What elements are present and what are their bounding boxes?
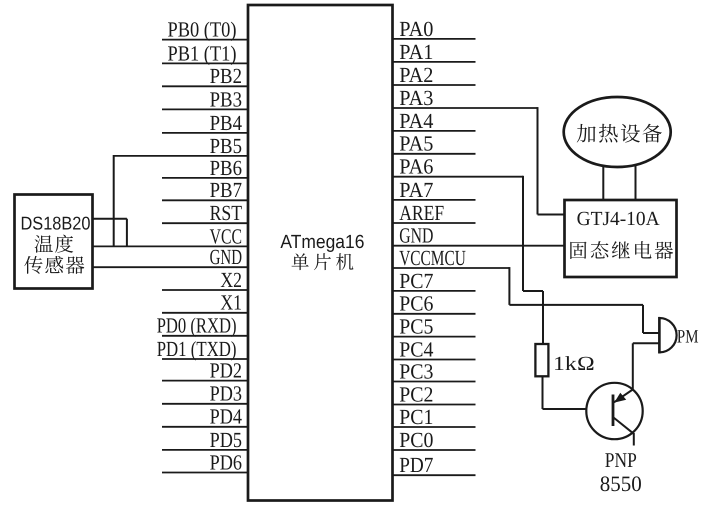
wire: right pin line PA2 (393, 84, 476, 86)
wire: buzzer top pin (643, 332, 660, 334)
transistor Q1 emitter arrow into base (PNP) (614, 393, 626, 403)
heater label 加热设备 (heating equipment) (577, 124, 662, 143)
svg-text:PA3: PA3 (399, 86, 433, 110)
wire: left pin line RST (162, 222, 248, 224)
wire: right pin line PA1 (393, 61, 476, 63)
wire: right pin line PC6 (393, 313, 476, 315)
wire: left pin line PB4 (162, 132, 248, 134)
wire: VCCMCU vertical (508, 267, 510, 305)
sensor label 传感器 (sensor) (24, 256, 84, 274)
wire: right pin line PA6 (393, 176, 523, 178)
svg-text:PB7: PB7 (210, 178, 243, 202)
svg-text:PB2: PB2 (210, 64, 242, 88)
svg-text:8550: 8550 (600, 471, 642, 496)
wire: DS18B20 data horizontal (93, 218, 127, 220)
wire: PB5 pull-up vertical to VCC line (113, 155, 115, 246)
transistor Q1 emitter diagonal (614, 389, 634, 402)
buzzer flat edge (658, 317, 661, 353)
wire: right pin line GND (393, 245, 565, 247)
svg-text:DS18B20: DS18B20 (21, 212, 91, 233)
wire: right pin line AREF (393, 222, 476, 224)
wire: collector lead down (633, 433, 635, 446)
svg-text:PB0 (T0): PB0 (T0) (168, 18, 237, 42)
svg-text:PA1: PA1 (399, 40, 433, 64)
svg-text:PC4: PC4 (399, 337, 433, 361)
sensor label 温度 (temperature) (35, 235, 74, 253)
wire: left pin line PB7 (162, 199, 248, 201)
svg-text:PD1 (TXD): PD1 (TXD) (157, 337, 237, 361)
wire: right pin line PC4 (393, 359, 476, 361)
svg-text:PD6: PD6 (210, 450, 243, 474)
svg-text:PB5: PB5 (210, 134, 242, 158)
svg-text:X1: X1 (220, 291, 242, 315)
wire: vertical down to buzzer top pin (642, 305, 644, 333)
wire: right pin line PC7 (393, 290, 476, 292)
svg-text:PA0: PA0 (399, 17, 433, 41)
svg-text:PA2: PA2 (399, 63, 433, 87)
svg-text:PB4: PB4 (210, 111, 243, 135)
wire: left pin line X2 (162, 289, 248, 291)
svg-text:PC1: PC1 (399, 405, 433, 429)
wire: DS18B20 data vertical to VCC line (126, 219, 128, 247)
wire: right pin line PC2 (393, 404, 476, 406)
wire: left pin line PD4 (162, 426, 248, 428)
wire: emitter vertical to buzzer (632, 343, 634, 390)
wire: left pin line PB0 (T0) (162, 39, 248, 41)
wire: PA6 horizontal jog (523, 290, 543, 292)
svg-text:PC0: PC0 (399, 428, 433, 452)
wire: left pin line VCC (93, 245, 249, 247)
transistor Q1 circle (586, 383, 642, 439)
wire: resistor R1 bottom lead (542, 376, 544, 409)
wire: left pin line PD1 (TXD) (162, 358, 248, 360)
svg-text:PNP: PNP (605, 448, 637, 472)
svg-text:RST: RST (210, 201, 242, 225)
wire: left pin line PB6 (162, 177, 248, 179)
svg-text:PB6: PB6 (210, 156, 243, 180)
wire: vertical down to resistor R1 (542, 291, 544, 345)
svg-text:PA5: PA5 (399, 132, 433, 156)
svg-text:GND: GND (210, 245, 242, 269)
svg-text:PA7: PA7 (399, 178, 433, 202)
svg-text:PC5: PC5 (399, 315, 433, 339)
wire: heater lead right (635, 150, 637, 200)
wire: right pin line PA4 (393, 130, 476, 132)
svg-text:AREF: AREF (399, 201, 444, 225)
wire: right pin line PC5 (393, 336, 476, 338)
svg-text:PB1 (T1): PB1 (T1) (168, 41, 237, 65)
svg-text:PM: PM (677, 327, 699, 348)
transistor Q1 base bar (612, 395, 615, 427)
wire: left pin line PD6 (162, 472, 248, 474)
svg-text:PC3: PC3 (399, 359, 433, 383)
wire: base wire to transistor Q1 (543, 408, 614, 410)
svg-text:PD5: PD5 (210, 428, 242, 452)
svg-text:PC2: PC2 (399, 382, 433, 406)
wire: right pin line PA7 (393, 199, 476, 201)
svg-text:ATmega16: ATmega16 (280, 232, 364, 253)
wire: left pin line PB5 (114, 155, 248, 157)
svg-text:X2: X2 (220, 268, 242, 292)
wire: left pin line PB3 (162, 108, 248, 110)
wire: PA3 horizontal into relay input 1 (538, 214, 565, 216)
svg-text:VCCMCU: VCCMCU (399, 246, 466, 270)
transistor Q1 collector diagonal (614, 418, 634, 434)
svg-text:PC6: PC6 (399, 292, 433, 316)
svg-text:1kΩ: 1kΩ (553, 353, 595, 375)
wire: right pin line PA3 (393, 107, 538, 109)
svg-text:PC7: PC7 (399, 269, 433, 293)
wire: left pin line PD2 (162, 380, 248, 382)
wire: left pin line GND (93, 266, 249, 268)
wire: right pin line PC3 (393, 381, 476, 383)
svg-text:PA6: PA6 (399, 155, 433, 179)
heater load ellipse 加热设备 (564, 97, 671, 167)
MCU U1 ATmega16 box (248, 5, 393, 501)
svg-text:PD2: PD2 (210, 359, 242, 383)
wire: left pin line PD5 (162, 449, 248, 451)
chip name 单片机 (microcontroller) (292, 253, 354, 270)
wire: PA6 vertical (522, 176, 524, 291)
wire: left pin line PD3 (162, 403, 248, 405)
svg-text:PD4: PD4 (210, 405, 243, 429)
svg-text:GTJ4-10A: GTJ4-10A (577, 208, 661, 230)
wire: right pin line PA5 (393, 153, 476, 155)
svg-text:PA4: PA4 (399, 109, 433, 133)
wire: heater lead left (602, 150, 604, 200)
relay label 固态继电器 (solid state relay) (570, 241, 673, 259)
wire: left pin line PB1 (T1) (162, 62, 248, 64)
wire: right pin line PC1 (393, 426, 476, 428)
svg-text:PD3: PD3 (210, 382, 242, 406)
svg-text:GND: GND (399, 224, 433, 248)
wire: left pin line X1 (162, 312, 248, 314)
wire: buzzer bottom pin (633, 342, 660, 344)
svg-text:PB3: PB3 (210, 87, 242, 111)
wire: right pin line PD7 (393, 474, 476, 476)
buzzer PM body (half circle) (659, 318, 676, 352)
relay U3 GTJ4-10A box (565, 200, 677, 277)
svg-text:PD0 (RXD): PD0 (RXD) (157, 314, 237, 338)
resistor R1 body (535, 344, 548, 376)
wire: right pin line VCCMCU (393, 267, 510, 269)
wire: left pin line PD0 (RXD) (162, 335, 248, 337)
sensor U2 DS18B20 box (15, 195, 93, 289)
wire: right pin line PA0 (393, 38, 476, 40)
wire: VCCMCU horizontal to buzzer (509, 304, 643, 306)
wire: right pin line PC0 (393, 449, 476, 451)
wire: PA3 vertical to relay (537, 107, 539, 214)
wire: left pin line PB2 (162, 85, 248, 87)
svg-text:PD7: PD7 (399, 453, 433, 477)
